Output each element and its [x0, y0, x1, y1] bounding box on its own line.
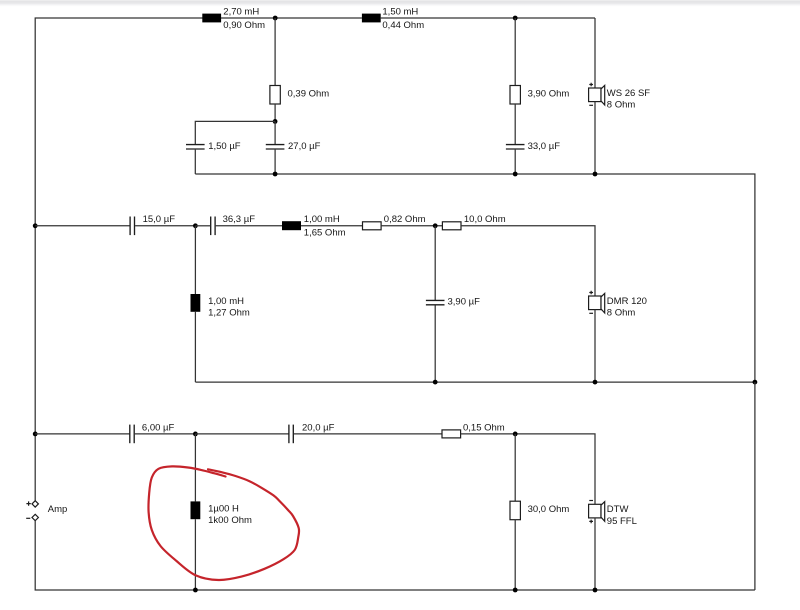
amp terminal +	[32, 501, 38, 507]
svg-text:10,0 Ohm: 10,0 Ohm	[464, 214, 506, 225]
svg-text:8 Ohm: 8 Ohm	[607, 308, 636, 319]
wire tweeter branch 195 down	[194, 434, 196, 502]
wire below C27	[274, 150, 276, 174]
inductor L4 1,00 mH vertical	[191, 294, 201, 312]
node mid-195	[193, 223, 198, 228]
wire branch 515 down to R30	[514, 434, 516, 501]
wire c6 to node	[135, 433, 196, 435]
wire R082 to node	[381, 225, 442, 227]
wire 275 to C27	[274, 121, 276, 144]
svg-text:27,0 µF: 27,0 µF	[288, 141, 321, 152]
capacitor 6,00 uF	[129, 425, 131, 444]
svg-text:2,70 mH: 2,70 mH	[223, 6, 259, 17]
capacitor 3,90 uF	[426, 299, 445, 301]
wire branch 515 down	[514, 18, 516, 86]
wire node to c20	[195, 433, 289, 435]
svg-text:36,3 µF: 36,3 µF	[223, 214, 256, 225]
wire branch 275 down	[274, 18, 276, 86]
wire L4 down	[194, 312, 196, 382]
wire R015 to corner, down to DTW	[461, 434, 595, 504]
node mid-435	[433, 223, 438, 228]
svg-text:3,90 µF: 3,90 µF	[448, 297, 481, 308]
wire L5 down	[194, 519, 196, 590]
svg-text:1,27 Ohm: 1,27 Ohm	[208, 308, 250, 319]
inductor L2 1,50 mH	[362, 14, 381, 23]
svg-text:8 Ohm: 8 Ohm	[607, 100, 636, 111]
svg-text:1µ00 H: 1µ00 H	[208, 503, 239, 514]
wire mid c15 to node	[135, 225, 195, 227]
wire top L2 to corner	[381, 17, 595, 19]
svg-text:1,00 mH: 1,00 mH	[304, 214, 340, 225]
capacitor 27,0 uF	[266, 144, 285, 146]
wire below R039	[274, 104, 276, 121]
node mid-left	[33, 223, 38, 228]
wire R10 to corner, down to DMR	[461, 226, 595, 296]
svg-text:1,50 µF: 1,50 µF	[208, 141, 241, 152]
svg-text:1,00 mH: 1,00 mH	[208, 296, 244, 307]
svg-text:3,90 Ohm: 3,90 Ohm	[528, 88, 570, 99]
svg-text:DMR 120: DMR 120	[607, 296, 647, 307]
svg-text:0,39 Ohm: 0,39 Ohm	[288, 88, 330, 99]
svg-text:30,0 Ohm: 30,0 Ohm	[528, 504, 570, 515]
resistor 0,39 Ohm	[270, 86, 280, 105]
red annotation circle	[148, 466, 299, 580]
node bottom-515	[513, 588, 518, 593]
wire C39 down	[434, 305, 436, 382]
amp terminal -	[32, 514, 38, 520]
svg-text:33,0 µF: 33,0 µF	[528, 141, 561, 152]
svg-text:15,0 µF: 15,0 µF	[143, 214, 176, 225]
speaker DTW 95 FFL	[589, 501, 637, 528]
svg-text:1,50 mH: 1,50 mH	[382, 6, 418, 17]
svg-text:0,44 Ohm: 0,44 Ohm	[382, 20, 424, 31]
node top-275	[273, 16, 278, 21]
wire below C33	[514, 150, 516, 174]
svg-text:0,90 Ohm: 0,90 Ohm	[223, 20, 265, 31]
speaker WS 26 SF	[589, 83, 651, 111]
resistor 0,82 Ohm	[363, 222, 382, 230]
node tweeter-515	[513, 432, 518, 437]
wire DMR bottom	[594, 310, 596, 383]
resistor 30,0 Ohm	[510, 501, 520, 520]
node top-515	[513, 16, 518, 21]
node rail1-515	[513, 172, 518, 177]
wire tweeter start	[35, 433, 130, 435]
svg-text:1k00 Ohm: 1k00 Ohm	[208, 515, 252, 526]
rail2	[195, 381, 755, 383]
node rail1-275	[273, 172, 278, 177]
toolbar shadow bar	[0, 0, 800, 7]
wire right rail lower	[754, 382, 756, 590]
node tweeter-195	[193, 432, 198, 437]
wire c20 to R015	[294, 433, 442, 435]
capacitor 36,3 uF	[210, 217, 212, 236]
wire top L1 to L2	[221, 17, 362, 19]
wire branch 435 down	[434, 226, 436, 300]
node 275-121	[273, 119, 278, 124]
svg-text:1,65 Ohm: 1,65 Ohm	[304, 228, 346, 239]
node bottom-595	[593, 588, 598, 593]
svg-text:0,15 Ohm: 0,15 Ohm	[463, 422, 505, 433]
inductor L1 2,70 mH	[202, 14, 221, 23]
node tweeter-left	[33, 432, 38, 437]
svg-text:DTW: DTW	[607, 504, 629, 515]
svg-text:20,0 µF: 20,0 µF	[302, 422, 335, 433]
speaker DMR 120	[589, 291, 647, 319]
svg-text:Amp: Amp	[48, 504, 68, 515]
wire left rail bottom	[35, 521, 755, 590]
node rail2-435	[433, 380, 438, 385]
wire subloop top	[195, 121, 275, 144]
inductor L3 1,00 mH	[282, 221, 301, 230]
node bottom-195	[193, 588, 198, 593]
wire DTW bottom	[594, 518, 596, 590]
wire mid start	[35, 225, 130, 227]
capacitor 15,0 uF	[129, 217, 131, 236]
wire below C15	[194, 150, 196, 174]
svg-text:95 FFL: 95 FFL	[607, 516, 637, 527]
capacitor 1,50 uF	[186, 144, 205, 146]
wire left rail top	[35, 18, 202, 501]
resistor 0,15 Ohm	[442, 430, 461, 438]
wire mid branch 195 down	[194, 226, 196, 294]
wire WS branch top	[594, 18, 596, 88]
wire below R39	[514, 104, 516, 144]
svg-text:0,82 Ohm: 0,82 Ohm	[384, 214, 426, 225]
resistor 10,0 Ohm	[442, 222, 461, 230]
inductor L5 1u00 H vertical	[191, 501, 201, 519]
resistor 3,90 Ohm	[510, 86, 520, 105]
wire R30 down	[514, 520, 516, 590]
wire L3 to R082	[301, 225, 363, 227]
wire mid c363 to L3	[195, 225, 210, 227]
node rail2-755	[753, 380, 758, 385]
rail1	[195, 174, 755, 382]
svg-text:WS 26 SF: WS 26 SF	[607, 88, 650, 99]
svg-text:6,00 µF: 6,00 µF	[142, 422, 175, 433]
node rail2-595	[593, 380, 598, 385]
wire WS bottom	[594, 102, 596, 174]
capacitor 20,0 uF	[288, 425, 290, 444]
capacitor 33,0 uF	[506, 144, 525, 146]
node rail1-595	[593, 172, 598, 177]
